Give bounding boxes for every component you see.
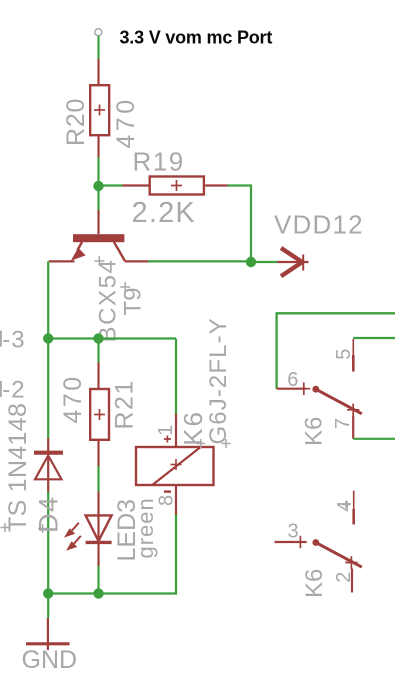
wire R19 pin stub left (red) [123,184,149,186]
svg-text:K6: K6 [301,417,328,446]
wire R20 pin stub bottom (red) [97,136,99,157]
pin 7 cross [347,404,359,416]
resistor R19 body [150,177,204,195]
wire node D to R21 (green) [97,339,99,363]
contact K6b pivot dot [312,539,319,546]
svg-text:VDD12: VDD12 [274,210,364,240]
pin 8 origin cross (red) [164,490,171,492]
wire coil pin8 to bottom rail (green) [48,515,176,594]
supply symbol VDD12 arrow [278,248,309,276]
relay coil K6 pin 1 stub (red) [175,414,177,447]
pin 3 cross [294,536,307,549]
svg-text:G6J-2FL-Y: G6J-2FL-Y [205,317,232,444]
wire from pin 7 (green) [353,438,395,440]
pin 4 origin cross (gray) [342,501,350,509]
wire T9 emitter stub (red) [49,260,75,262]
wire node A to transistor base (green) [97,186,99,210]
svg-text:470: 470 [59,374,87,423]
svg-text:green: green [133,497,158,558]
svg-text:7: 7 [332,418,354,429]
pin 1 origin cross (red) [164,436,171,443]
diode D4 symbol (cathode bar up, anode triangle below) [34,453,63,492]
text origin cross D4 [38,524,47,533]
relay coil K6 body G6J-2FL-Y [136,447,214,485]
wire D4 to bottom rail (green) [47,492,49,594]
text origin cross K6 [196,439,205,448]
diode D4 pin stub top (red) [47,438,49,452]
resistor R20 body [90,85,109,135]
pin 6 cross [298,382,311,395]
svg-text:2.2K: 2.2K [132,197,196,229]
wire LED3 to bottom rail (green) [97,566,99,594]
LED3 pin stub top (red) [97,492,99,516]
svg-text:R21: R21 [111,379,139,429]
transistor T9 BCX54 symbol [71,234,125,261]
wire horizontal rail to coil (green) [48,337,176,339]
LED3 symbol (triangle down + bar) [86,515,112,542]
wire to contact K6a common (green) [277,313,395,388]
svg-text:-3: -3 [2,327,25,354]
resistor R21 body [90,389,109,440]
LED3 emission arrows [64,528,77,551]
wire R19 pin stub right (red) [205,184,227,186]
wire R19 to node B corner (green) [228,186,252,263]
svg-text:D4: D4 [34,495,64,533]
node F junction (bottom rail mid) [93,588,103,598]
svg-text:T9: T9 [120,287,147,315]
LED3 pin stub bottom (red) [97,542,99,566]
contact K6b arm to pin 2 [316,543,362,568]
wire node B to VDD12 symbol (green) [251,261,278,263]
contact K6a arm to pin 7 [316,389,362,414]
relay contact K6a pin 7 (red) [352,416,354,439]
svg-text:1: 1 [155,425,177,436]
wire rail to GND (green) [47,594,49,619]
wire node A to R19 (green) [99,184,123,186]
wire collector to node B (green) [148,260,251,262]
svg-text:470: 470 [112,96,140,148]
contact K6a pivot dot [312,386,319,393]
svg-text:3: 3 [288,520,299,542]
svg-text:5: 5 [333,349,355,360]
wire net from P1 to R20 (green) [97,36,99,59]
node A junction [93,181,103,191]
transistor T9 base pin stub (red) [97,210,99,234]
ground symbol GND [26,618,70,650]
wire emitter rail down (green) [47,261,49,438]
wire T9 collector stub (red) [125,260,148,262]
svg-text:R20: R20 [62,98,90,146]
relay contact K6a pin 6 (common, red) [277,388,306,390]
relay contact K6a pin 5 (red) [352,339,354,355]
relay contact K6b pin 3 (common, red) [275,541,307,543]
node D junction (R21 top) [93,333,103,343]
wire R21 pin stub top (red) [97,363,99,389]
wire R20 pin stub top (red) [97,59,99,84]
svg-text:8: 8 [156,495,178,506]
relay contact K6b pin 4 (red) [353,491,355,510]
node E junction (bottom rail left) [43,588,53,598]
wire rail to coil pin1 (green) [175,339,177,415]
relay contact K6b pin 2 (red) [351,569,353,593]
svg-text:GND: GND [22,646,78,674]
svg-text:R19: R19 [133,147,185,177]
svg-text:K6: K6 [178,410,208,446]
svg-text:TS 1N4148: TS 1N4148 [4,403,32,532]
wire to pin 5 (green) [353,337,395,339]
svg-text:BCX54: BCX54 [95,258,122,342]
pin 2 cross [345,556,357,568]
svg-text:6: 6 [287,369,298,391]
svg-text:4: 4 [334,501,356,512]
text origin cross BCX54 [94,256,104,266]
wire R21 pin stub bottom (red) [97,441,99,466]
text origin cross T9 [120,282,130,292]
relay coil K6 pin 8 stub (red) [175,486,177,515]
svg-text:2: 2 [333,572,355,583]
svg-text:-2: -2 [2,377,25,404]
node B junction [246,257,256,267]
text origin cross G6J [222,439,231,448]
node C junction (left rail) [43,333,53,343]
wire R20 to node A (green) [97,157,99,186]
svg-text:K6: K6 [301,569,328,598]
text origin cross TS 1N4148 [1,523,10,532]
svg-text:3.3 V vom mc Port: 3.3 V vom mc Port [120,28,273,48]
wire R21 to LED3 (green) [97,466,99,492]
pin P1 3.3V supply terminal [95,29,102,36]
